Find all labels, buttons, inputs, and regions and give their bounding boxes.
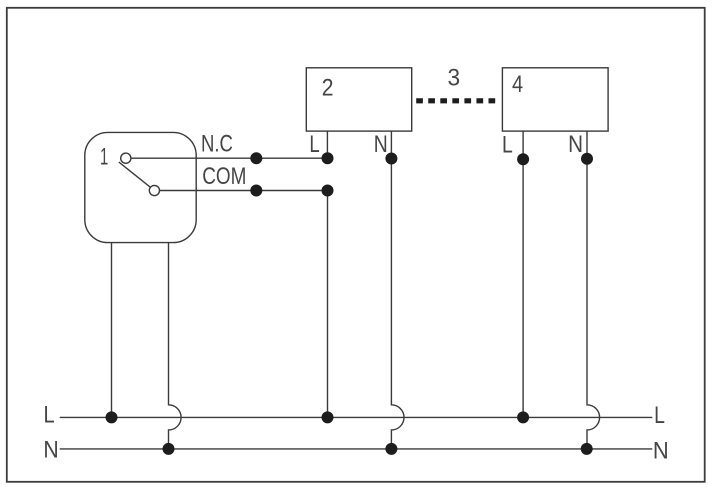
svg-text:L: L bbox=[502, 131, 513, 158]
svg-text:L: L bbox=[44, 401, 55, 428]
svg-text:2: 2 bbox=[322, 74, 334, 101]
svg-text:3: 3 bbox=[448, 64, 461, 91]
svg-text:L: L bbox=[654, 401, 665, 428]
svg-text:COM: COM bbox=[202, 162, 246, 190]
svg-text:N: N bbox=[568, 131, 583, 158]
svg-text:4: 4 bbox=[512, 70, 523, 97]
svg-text:L: L bbox=[309, 131, 319, 158]
svg-text:N.C: N.C bbox=[201, 130, 233, 157]
svg-text:1: 1 bbox=[100, 144, 108, 170]
svg-text:N: N bbox=[43, 435, 58, 463]
svg-text:N: N bbox=[653, 436, 669, 463]
svg-text:N: N bbox=[374, 130, 388, 158]
